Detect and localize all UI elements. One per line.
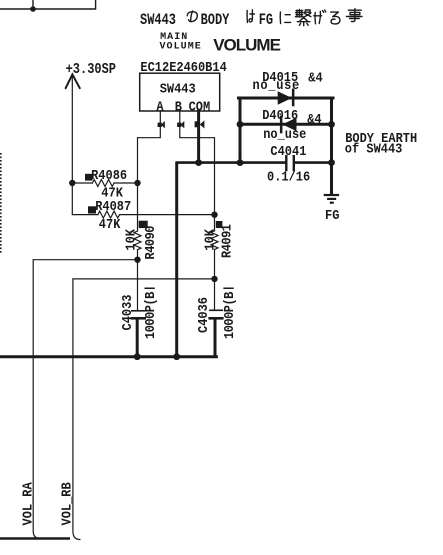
svg-text:COM: COM — [189, 99, 211, 115]
svg-text:D4016: D4016 — [262, 107, 298, 123]
svg-text:10K: 10K — [202, 229, 218, 251]
svg-text:R4087: R4087 — [95, 198, 131, 214]
svg-text:C4036: C4036 — [195, 297, 211, 333]
svg-text:of SW443: of SW443 — [345, 141, 403, 157]
svg-text:47K: 47K — [99, 217, 121, 233]
svg-text:R4090: R4090 — [142, 226, 158, 259]
svg-text:FG: FG — [325, 207, 340, 223]
svg-text:A: A — [156, 99, 163, 115]
svg-text:no_use: no_use — [263, 126, 306, 142]
svg-text:10K: 10K — [123, 229, 139, 251]
svg-text:EC12E2460B14: EC12E2460B14 — [140, 59, 227, 75]
svg-text:+3.30SP: +3.30SP — [66, 61, 116, 77]
svg-text:&4: &4 — [307, 111, 322, 127]
svg-text:C4033: C4033 — [120, 294, 136, 330]
svg-text:SW443: SW443 — [160, 81, 196, 97]
svg-text:VOL_RA: VOL_RA — [20, 482, 36, 525]
svg-text:C4041: C4041 — [270, 143, 306, 159]
svg-text:1000P(B: 1000P(B — [142, 291, 158, 339]
svg-text:VOLUME: VOLUME — [160, 42, 202, 53]
svg-text:no_use: no_use — [253, 77, 300, 93]
svg-text:BODY: BODY — [201, 12, 230, 30]
svg-text:0.1/16: 0.1/16 — [267, 169, 310, 185]
svg-text:VOLUME: VOLUME — [213, 35, 280, 54]
svg-text:SW443: SW443 — [140, 12, 176, 30]
svg-text:VOL_RB: VOL_RB — [59, 482, 75, 525]
svg-text:1000P(B: 1000P(B — [221, 291, 237, 339]
svg-text:B: B — [175, 99, 182, 115]
svg-text:&4: &4 — [308, 70, 323, 86]
svg-text:R4086: R4086 — [91, 168, 127, 184]
svg-text:R4091: R4091 — [219, 224, 235, 258]
svg-text:FG: FG — [259, 12, 273, 30]
